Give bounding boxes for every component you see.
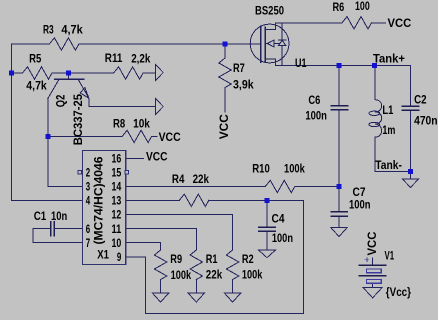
wire BS250 drain to R6 — [275, 23, 342, 30]
wire Q2 base stub — [67, 73, 69, 79]
svg-text:U1: U1 — [295, 56, 307, 70]
svg-text:100n: 100n — [305, 108, 327, 122]
wire R7 bottom lead to VCC — [224, 88, 226, 113]
svg-text:16: 16 — [112, 153, 122, 165]
svg-text:L1: L1 — [382, 103, 393, 117]
svg-text:4,7k: 4,7k — [61, 23, 83, 37]
wire R4 right lead to node C4 and loop — [209, 199, 304, 201]
capacitor C1 plates — [51, 222, 55, 236]
svg-text:C6: C6 — [308, 93, 320, 107]
svg-text:C1: C1 — [34, 209, 47, 223]
svg-text:9: 9 — [117, 252, 121, 264]
svg-text:X1: X1 — [97, 247, 109, 261]
wire L1 bottom lead to Tank- rail — [375, 137, 411, 171]
wire C7 ground stem — [338, 216, 340, 227]
svg-text:VCC: VCC — [388, 16, 412, 30]
wire R6 right lead to VCC — [372, 22, 386, 24]
svg-text:10k: 10k — [133, 117, 150, 131]
svg-text:R5: R5 — [29, 51, 41, 65]
ground C7 — [331, 227, 348, 236]
ground R1 — [188, 293, 205, 302]
svg-text:1m: 1m — [382, 123, 395, 137]
svg-text:VCC: VCC — [146, 149, 168, 163]
resistor R10 — [265, 180, 295, 192]
node Q2 base junction — [66, 71, 71, 76]
svg-text:Q2: Q2 — [53, 94, 67, 107]
transistor U1 channel bar — [264, 27, 266, 61]
resistor R4 — [179, 194, 209, 206]
component X1 IC body — [83, 151, 126, 265]
svg-text:R1: R1 — [206, 252, 218, 266]
wire C7 top lead — [338, 187, 340, 212]
resistor R5 — [23, 67, 53, 79]
svg-text:Tank+: Tank+ — [373, 52, 405, 66]
svg-text:22k: 22k — [206, 268, 223, 282]
wire R11 lead to output port — [143, 72, 155, 74]
svg-text:470n: 470n — [414, 113, 438, 127]
wire C4 ground stem — [266, 231, 268, 250]
transistor U1 body stub — [265, 43, 282, 45]
transistor U1 body diode — [278, 40, 286, 45]
ground Tank- — [402, 179, 419, 188]
node C2 Tank- junction — [408, 169, 413, 174]
battery V1 electrode box lower — [366, 279, 381, 283]
svg-text:12: 12 — [112, 210, 122, 222]
wire R7 top lead — [224, 44, 226, 58]
ground Tank- stem — [410, 172, 412, 179]
svg-text:R11: R11 — [105, 51, 123, 65]
svg-text:10: 10 — [112, 238, 122, 250]
node L1 Tank+ junction — [372, 63, 377, 68]
wire pin11 to R1 — [126, 229, 197, 250]
svg-text:14: 14 — [112, 182, 122, 194]
transistor Q2 collector leg — [48, 79, 59, 98]
wire pin12 to R2 — [126, 215, 233, 250]
capacitor C6 plates — [331, 106, 347, 110]
svg-text:C2: C2 — [414, 93, 427, 107]
port output arrow at R11 — [156, 65, 164, 81]
svg-text:R2: R2 — [242, 252, 254, 266]
svg-text:C4: C4 — [272, 211, 285, 225]
node Q2 collector R8 junction — [45, 134, 50, 139]
svg-text:R4: R4 — [172, 172, 185, 186]
resistor R8 — [122, 130, 152, 142]
wire C2 bottom lead — [410, 110, 412, 171]
svg-text:R6: R6 — [333, 0, 345, 14]
transistor U1 body rail lower — [281, 46, 283, 66]
svg-text:2,2k: 2,2k — [131, 51, 150, 65]
wire Q2 collector down to pin3 of X1 — [48, 99, 83, 187]
svg-text:3,9k: 3,9k — [233, 78, 254, 92]
svg-text:R8: R8 — [113, 117, 125, 131]
battery V1 plate top — [359, 264, 386, 266]
resistor R6 — [342, 17, 372, 29]
inductor L1 loop crossing lower — [369, 122, 380, 126]
svg-text:BC337-25: BC337-25 — [71, 94, 85, 145]
inductor L1 coil — [375, 100, 382, 138]
svg-text:15: 15 — [112, 168, 122, 180]
transistor U1 drain stub — [265, 29, 275, 31]
transistor Q2 base bar — [55, 78, 84, 80]
svg-text:VCC: VCC — [159, 130, 181, 144]
resistor R7 — [219, 58, 231, 88]
svg-text:BS250: BS250 — [255, 3, 284, 17]
svg-text:22k: 22k — [193, 172, 210, 186]
transistor U1 source stub — [265, 58, 275, 60]
battery V1 plus mark — [365, 258, 369, 262]
port output arrow at Q2 emitter — [156, 99, 164, 115]
wire pin16 to VCC — [126, 158, 144, 160]
pin 2 open terminal square — [78, 171, 81, 174]
wire R10 right lead to node — [295, 186, 339, 188]
wire C1 pin6 lead — [54, 228, 82, 230]
wire R5 left lead — [12, 72, 23, 74]
svg-text:R10: R10 — [252, 161, 270, 175]
ground R2 — [224, 293, 241, 302]
transistor Q2 emitter arrow — [80, 88, 89, 99]
svg-text:V1: V1 — [385, 248, 395, 262]
wire R8 left lead from collector node — [48, 135, 122, 137]
svg-text:VCC: VCC — [365, 231, 379, 255]
wire R3 left lead — [12, 43, 50, 45]
capacitor C4 plates — [259, 227, 275, 231]
node C4 R4 junction — [264, 198, 269, 203]
svg-text:(MC74/HC)4046: (MC74/HC)4046 — [92, 156, 106, 244]
transistor U1 gate bar — [260, 26, 262, 62]
svg-text:3: 3 — [86, 182, 90, 194]
ground R9 — [152, 293, 169, 302]
svg-text:100k: 100k — [242, 268, 263, 282]
battery V1 plate bottom — [359, 275, 386, 277]
wire L1 top lead — [374, 65, 376, 99]
node R5 left junction — [9, 71, 14, 76]
transistor Q2 emitter leg — [78, 79, 89, 98]
wire Q2 emitter to output port — [89, 99, 155, 107]
svg-text:4: 4 — [86, 196, 91, 208]
svg-text:R7: R7 — [233, 61, 245, 75]
svg-text:100n: 100n — [272, 231, 293, 245]
transistor U1 body rail upper — [281, 23, 283, 40]
transistor U1 body diode bar — [278, 39, 286, 41]
wire left rail from R3 down to pin4 of X1 — [12, 44, 83, 201]
ground C4 — [259, 250, 276, 258]
wire feedback loop right and bottom to pin9 — [126, 200, 304, 313]
capacitor C2 plates — [402, 106, 419, 110]
svg-text:100k: 100k — [171, 268, 192, 282]
wire C6 bottom lead to node C7 — [338, 110, 340, 187]
pin 15 open terminal square — [125, 171, 128, 174]
resistor R2 — [226, 250, 238, 280]
svg-text:Tank-: Tank- — [375, 158, 402, 172]
wire R5 right lead to node and R11 — [52, 72, 114, 74]
wire C6 top lead — [338, 65, 340, 105]
svg-text:4,7k: 4,7k — [26, 78, 47, 92]
svg-text:7: 7 — [86, 238, 90, 250]
resistor R9 — [154, 250, 166, 280]
wire R3 right lead to gate of BS250 — [79, 43, 261, 45]
wire V1 bottom stem — [372, 283, 374, 287]
wire C4 top lead — [266, 200, 268, 227]
svg-text:100: 100 — [355, 0, 370, 13]
resistor R11 — [114, 67, 144, 79]
svg-text:100k: 100k — [284, 161, 305, 175]
svg-text:VCC: VCC — [217, 114, 231, 140]
wire V1 top stem — [372, 258, 374, 265]
wire C1 left plate around to pin7 — [33, 229, 83, 243]
node C6 C7 R10 junction — [337, 184, 342, 189]
ground V1 — [363, 288, 382, 298]
svg-text:R9: R9 — [170, 252, 182, 266]
wire C2 top lead — [410, 65, 412, 106]
inductor L1 loop crossing upper — [369, 111, 380, 115]
svg-text:11: 11 — [112, 224, 122, 236]
wire R1 ground stem — [195, 280, 197, 293]
wire R2 ground stem — [232, 280, 234, 293]
svg-text:100n: 100n — [349, 197, 371, 211]
wire pin10 to R9 — [126, 243, 161, 250]
transistor U1 body arrow — [267, 40, 274, 47]
battery V1 electrode box upper — [366, 269, 381, 273]
svg-text:13: 13 — [112, 196, 122, 208]
wire pin13 row through R4 to loop corner — [126, 199, 180, 201]
svg-text:6: 6 — [86, 224, 90, 236]
wire R8 right lead to VCC — [152, 135, 157, 137]
transistor U1 BS250 body circle — [250, 24, 289, 63]
resistor R1 — [190, 250, 202, 280]
svg-text:R3: R3 — [43, 23, 54, 37]
wire pin14 row to R10 — [126, 186, 266, 188]
svg-text:10n: 10n — [51, 209, 67, 223]
wire R9 ground stem — [160, 280, 162, 293]
node C6 Tank+ junction — [337, 63, 342, 68]
node R7 gate junction — [223, 42, 228, 47]
wire BS250 source to tank rail Tank+ — [275, 59, 410, 66]
svg-text:{Vcc}: {Vcc} — [386, 285, 411, 299]
resistor R3 — [49, 38, 79, 50]
capacitor C7 plates — [331, 212, 347, 216]
svg-text:2: 2 — [86, 168, 90, 180]
